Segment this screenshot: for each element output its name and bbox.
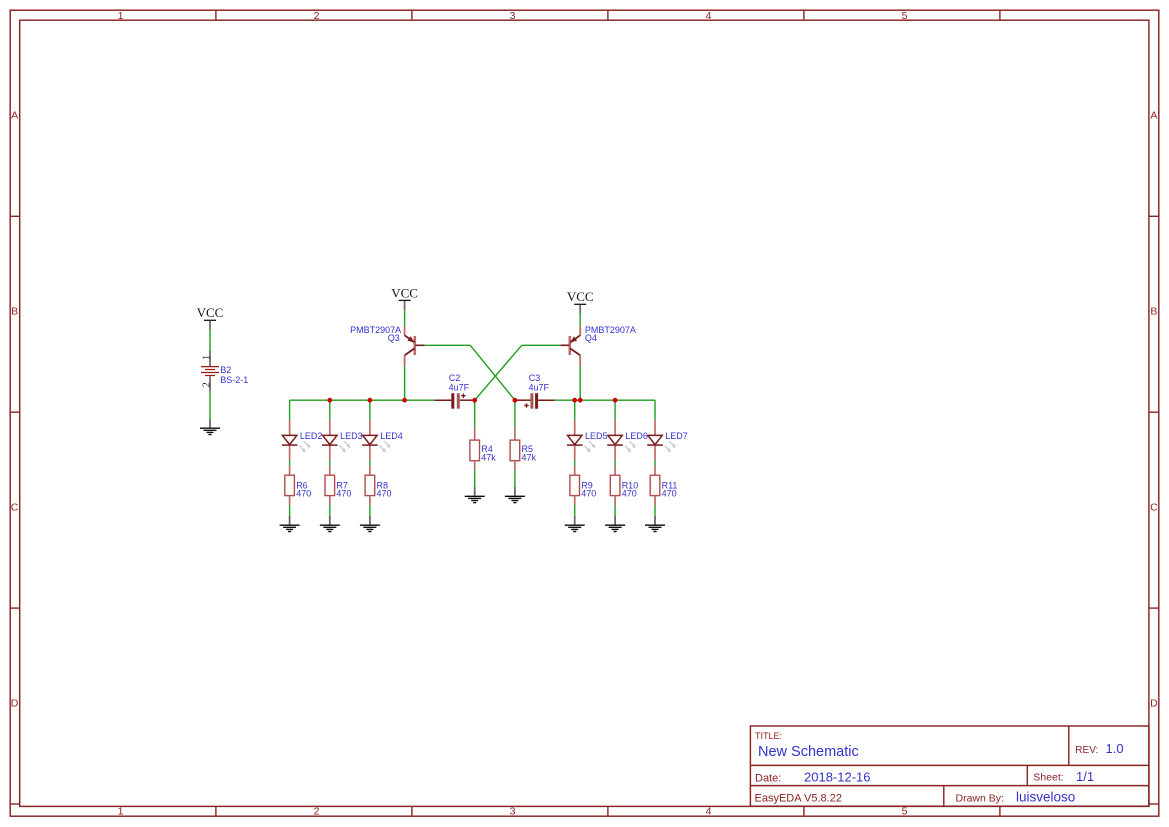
svg-text:LED4: LED4 [380, 431, 403, 441]
svg-text:Q4: Q4 [585, 333, 597, 343]
svg-text:A: A [11, 110, 18, 122]
svg-text:4: 4 [706, 806, 712, 818]
svg-text:2018-12-16: 2018-12-16 [804, 769, 871, 784]
svg-text:1: 1 [118, 806, 124, 818]
svg-text:TITLE:: TITLE: [755, 731, 782, 741]
svg-text:2: 2 [201, 382, 212, 387]
svg-text:2: 2 [314, 10, 320, 22]
svg-text:LED7: LED7 [665, 431, 688, 441]
svg-text:470: 470 [296, 488, 311, 498]
svg-text:VCC: VCC [197, 305, 224, 320]
svg-text:1.0: 1.0 [1106, 741, 1124, 756]
svg-text:Date:: Date: [755, 772, 781, 784]
svg-text:B: B [1150, 306, 1157, 318]
svg-text:3: 3 [510, 806, 516, 818]
svg-text:2: 2 [314, 806, 320, 818]
svg-text:1: 1 [201, 355, 212, 360]
svg-text:D: D [11, 698, 19, 710]
svg-text:3: 3 [510, 10, 516, 22]
svg-text:Q3: Q3 [388, 333, 400, 343]
svg-text:luisveloso: luisveloso [1016, 790, 1075, 805]
svg-text:470: 470 [662, 488, 677, 498]
svg-text:1: 1 [118, 10, 124, 22]
svg-text:REV:: REV: [1075, 745, 1098, 756]
svg-text:New Schematic: New Schematic [758, 744, 859, 760]
svg-text:C: C [11, 502, 19, 514]
svg-text:LED2: LED2 [300, 431, 323, 441]
svg-text:4: 4 [706, 10, 712, 22]
svg-text:BS-2-1: BS-2-1 [220, 375, 248, 385]
svg-text:B2: B2 [220, 365, 231, 375]
svg-text:VCC: VCC [391, 285, 418, 300]
svg-text:4u7F: 4u7F [529, 383, 550, 393]
svg-text:4u7F: 4u7F [449, 383, 470, 393]
svg-text:47k: 47k [522, 453, 537, 463]
svg-text:1/1: 1/1 [1076, 769, 1094, 784]
svg-text:5: 5 [902, 806, 908, 818]
svg-text:470: 470 [336, 488, 351, 498]
svg-text:470: 470 [581, 488, 596, 498]
svg-text:LED6: LED6 [625, 431, 648, 441]
svg-text:LED5: LED5 [585, 431, 608, 441]
svg-text:VCC: VCC [567, 289, 594, 304]
svg-text:Sheet:: Sheet: [1033, 772, 1063, 784]
svg-text:EasyEDA V5.8.22: EasyEDA V5.8.22 [755, 792, 842, 804]
svg-text:LED3: LED3 [340, 431, 363, 441]
svg-text:47k: 47k [481, 453, 496, 463]
svg-text:D: D [1150, 698, 1158, 710]
svg-text:B: B [11, 306, 18, 318]
svg-text:470: 470 [622, 488, 637, 498]
svg-text:A: A [1150, 110, 1157, 122]
svg-text:470: 470 [377, 488, 392, 498]
svg-text:5: 5 [902, 10, 908, 22]
svg-text:Drawn By:: Drawn By: [956, 792, 1004, 804]
svg-text:C: C [1150, 502, 1158, 514]
